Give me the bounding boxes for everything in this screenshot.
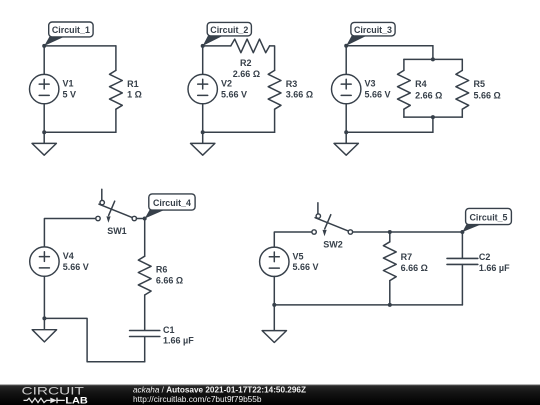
capacitor C2 — [447, 258, 478, 264]
svg-text:1.66 µF: 1.66 µF — [479, 263, 510, 273]
wire C1 bottom lead — [144, 337, 146, 362]
ground circuit 1 — [43, 132, 45, 143]
wire parallel top rail — [404, 58, 462, 60]
svg-text:5.66 V: 5.66 V — [293, 262, 319, 272]
capacitor C1 — [130, 331, 160, 337]
wire R3 bottom lead — [274, 109, 276, 132]
resistor R7 — [383, 242, 396, 281]
svg-text:1 Ω: 1 Ω — [127, 90, 142, 100]
switch SW1 upper throw terminal — [100, 200, 104, 204]
voltage source V3 — [332, 74, 361, 103]
resistor R2 — [231, 39, 270, 53]
wire node to R6 — [144, 219, 146, 257]
switch SW1 arm — [99, 204, 132, 217]
resistor R4 — [398, 70, 411, 109]
node top-left circuit 3 — [344, 44, 348, 48]
wire V2 bottom lead — [202, 104, 204, 133]
svg-text:Circuit_2: Circuit_2 — [210, 24, 248, 35]
wire V3 bottom lead — [345, 104, 347, 133]
svg-text:LAB: LAB — [65, 394, 88, 405]
label Circuit_1 callout box — [44, 36, 66, 46]
ground circuit 2 — [202, 132, 204, 143]
wire V5 bottom lead — [273, 276, 275, 305]
label Circuit_3 callout box — [346, 35, 368, 46]
node SW1 output circuit 4 — [143, 217, 147, 221]
node R7 top junction — [388, 230, 392, 234]
svg-text:5.66 V: 5.66 V — [365, 89, 391, 99]
wire stub above SW2 upper throw terminal — [317, 203, 319, 214]
label Circuit_4 callout box — [145, 209, 167, 218]
node parallel bottom junction — [431, 115, 435, 119]
voltage source V2 — [188, 74, 217, 103]
wire R1 bottom lead — [115, 109, 117, 132]
svg-text:V3: V3 — [365, 79, 376, 89]
svg-text:SW2: SW2 — [323, 239, 343, 249]
CircuitLab logo: diode symbol — [50, 398, 57, 404]
svg-text:1.66 µF: 1.66 µF — [163, 336, 194, 346]
svg-text:5.66 V: 5.66 V — [221, 89, 247, 99]
footer bar — [0, 385, 540, 405]
switch SW2 pole terminal — [348, 230, 352, 234]
resistor R3 — [268, 70, 281, 109]
svg-text:Circuit_5: Circuit_5 — [470, 212, 508, 223]
node bottom circuit 3 — [344, 130, 348, 134]
switch SW1 left terminal — [96, 216, 100, 220]
wire R4 top lead — [403, 59, 405, 70]
wire R2 to corner — [270, 46, 275, 71]
svg-text:V5: V5 — [293, 251, 304, 261]
resistor R6 — [138, 256, 151, 295]
svg-text:6.66 Ω: 6.66 Ω — [156, 275, 183, 285]
wire mid drop to parallel rail — [432, 46, 434, 60]
svg-text:R4: R4 — [415, 79, 427, 89]
wire bottom rail circuit 3 — [346, 131, 433, 133]
wire bottom rail circuit 1 — [44, 131, 116, 133]
ground circuit 5 — [273, 305, 275, 331]
svg-text:5.66 V: 5.66 V — [63, 262, 89, 272]
wire V1 bottom lead — [43, 104, 45, 133]
resistor R1 — [110, 70, 123, 109]
switch SW2 arm — [315, 218, 348, 231]
node R7 bottom junction — [388, 303, 392, 307]
node C2 top junction — [460, 230, 464, 234]
svg-text:R5: R5 — [474, 79, 486, 89]
node top-left circuit 1 — [42, 44, 46, 48]
svg-text:R3: R3 — [286, 79, 298, 89]
node bottom circuit 5 — [272, 303, 276, 307]
wire bottom return circuit 4 — [44, 318, 144, 361]
wire V5 top lead and corner — [274, 232, 314, 247]
wire top rail circuit 3 — [346, 45, 433, 47]
CircuitLab logo: resistor squiggle — [24, 398, 51, 402]
node bottom circuit 4 — [42, 316, 46, 320]
wire parallel bottom rail — [404, 116, 462, 118]
switch SW2 left terminal — [312, 230, 316, 234]
svg-text:C1: C1 — [163, 325, 175, 335]
wire V2 top lead — [202, 46, 204, 75]
label Circuit_5 callout box — [462, 224, 483, 232]
wire bottom rail circuit 2 — [203, 131, 275, 133]
svg-text:Circuit_1: Circuit_1 — [52, 24, 90, 35]
wire R5 top lead — [461, 59, 463, 70]
wire V4 top lead and corner — [44, 219, 98, 247]
svg-text:ackaha / Autosave 2021-01-17T2: ackaha / Autosave 2021-01-17T22:14:50.29… — [133, 386, 306, 395]
node top-left circuit 2 — [201, 44, 205, 48]
ground circuit 3 — [345, 132, 347, 143]
label Circuit_2 callout box — [203, 35, 225, 46]
wire R4 bottom lead — [403, 109, 405, 117]
voltage source V1 — [30, 74, 59, 103]
voltage source V5 — [260, 247, 289, 276]
wire V4 bottom lead — [43, 276, 45, 318]
wire V1 top lead — [43, 46, 45, 75]
svg-text:R6: R6 — [156, 265, 168, 275]
switch SW2 actuation arc with arrow — [325, 215, 331, 229]
wire C2 bottom lead — [461, 265, 463, 305]
svg-text:Circuit_3: Circuit_3 — [354, 24, 392, 35]
switch SW1 pole terminal — [132, 216, 136, 220]
svg-text:6.66 Ω: 6.66 Ω — [401, 263, 428, 273]
svg-text:3.66 Ω: 3.66 Ω — [286, 90, 313, 100]
svg-text:C2: C2 — [479, 252, 491, 262]
wire bottom rail circuit 5 — [274, 304, 462, 306]
switch SW2 upper throw terminal — [316, 214, 320, 218]
wire R1 top lead — [115, 46, 117, 71]
svg-text:V2: V2 — [221, 79, 232, 89]
wire R6 to C1 — [144, 295, 146, 330]
svg-text:V1: V1 — [63, 79, 74, 89]
svg-text:Circuit_4: Circuit_4 — [153, 197, 192, 208]
svg-text:2.66 Ω: 2.66 Ω — [233, 69, 260, 79]
svg-text:R1: R1 — [127, 79, 139, 89]
wire SW2 pole to C2 top — [353, 231, 463, 233]
wire V3 top lead — [345, 46, 347, 75]
node bottom circuit 2 — [201, 130, 205, 134]
svg-text:2.66 Ω: 2.66 Ω — [415, 90, 442, 100]
svg-text:5 V: 5 V — [63, 89, 77, 99]
voltage source V4 — [30, 247, 59, 276]
wire mid drop to bottom rail — [432, 117, 434, 132]
wire stub above SW1 upper throw terminal — [101, 189, 103, 200]
svg-text:R2: R2 — [240, 58, 252, 68]
ground circuit 4 — [43, 318, 45, 329]
resistor R5 — [456, 70, 469, 109]
node parallel top junction — [431, 57, 435, 61]
svg-text:SW1: SW1 — [107, 226, 127, 236]
switch SW1 actuation arc with arrow — [109, 201, 115, 215]
svg-text:R7: R7 — [401, 252, 413, 262]
svg-text:5.66 Ω: 5.66 Ω — [474, 90, 501, 100]
wire C2 top lead — [461, 232, 463, 258]
svg-text:http://circuitlab.com/c7but9f7: http://circuitlab.com/c7but9f79b55b — [133, 395, 262, 404]
wire top-left to R2 — [203, 45, 231, 47]
wire R7 top lead — [389, 232, 391, 242]
wire R5 bottom lead — [461, 109, 463, 117]
node bottom circuit 1 — [42, 130, 46, 134]
svg-text:V4: V4 — [63, 251, 74, 261]
wire R7 bottom lead — [389, 281, 391, 305]
wire top rail circuit 1 — [44, 45, 116, 47]
wire SW1 pole to node — [136, 218, 144, 220]
